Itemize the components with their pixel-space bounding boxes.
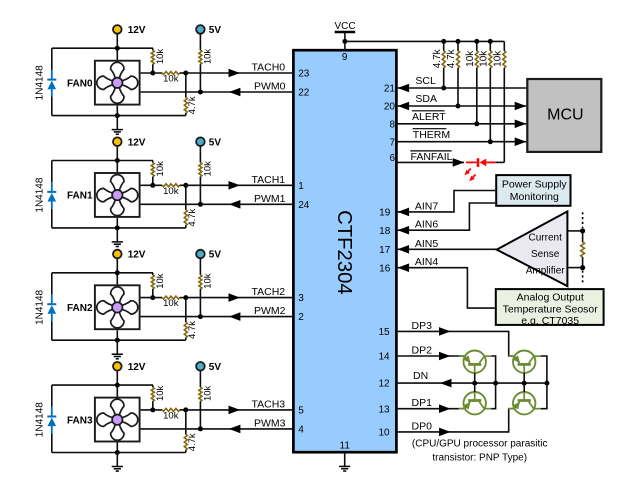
- wire DN line: [396, 382, 547, 384]
- block Analog Output Temperature Sensor: [496, 289, 604, 325]
- svg-text:Analog Output: Analog Output: [517, 292, 584, 304]
- svg-text:4.7k: 4.7k: [187, 321, 198, 339]
- wire Q3 base to DN: [474, 383, 476, 392]
- svg-text:AIN7: AIN7: [415, 200, 439, 212]
- resistor 10k series fan1: [162, 184, 179, 187]
- node VCC rail junction ALERT: [474, 39, 479, 44]
- resistor shunt: [582, 231, 584, 242]
- svg-text:PWM2: PWM2: [254, 305, 286, 317]
- resistor 4.7k pullup SCL: [442, 51, 445, 68]
- wire fan bottom fan3: [116, 443, 118, 453]
- arrow DP2: [439, 352, 451, 361]
- resistor 4.7k pulldown fan3: [185, 410, 187, 435]
- svg-text:DP2: DP2: [412, 345, 433, 357]
- node DN right collectors: [544, 381, 549, 386]
- svg-text:TACH2: TACH2: [252, 286, 286, 298]
- node 12V junction fan0: [115, 46, 120, 51]
- svg-text:1N4148: 1N4148: [34, 402, 45, 437]
- wire 12V rail fan2: [52, 272, 153, 274]
- resistor 10k pullup ALERT: [475, 51, 478, 68]
- resistor 10k series fan0: [162, 72, 179, 75]
- ground fan0: [116, 116, 118, 130]
- svg-text:1N4148: 1N4148: [34, 177, 45, 212]
- wire Q2 collector to DN: [541, 356, 547, 383]
- arrow TACH2: [229, 293, 241, 302]
- arrow AIN6 into IC: [398, 226, 410, 235]
- resistor 4.7k pullup SDA: [457, 51, 460, 68]
- svg-text:PWM3: PWM3: [254, 417, 286, 429]
- transistor Q1 (DP2/DN): [459, 351, 492, 373]
- svg-text:13: 13: [378, 404, 390, 415]
- LED emission arrows: [464, 169, 475, 182]
- resistor 10k pullup FANFAIL: [503, 51, 506, 68]
- svg-text:4.7k: 4.7k: [187, 208, 198, 226]
- svg-text:1: 1: [298, 181, 304, 192]
- resistor 10k pullup 12V fan3: [152, 385, 154, 387]
- supply 5V fan3: [196, 362, 205, 371]
- resistor 10k pullup 12V fan2: [152, 273, 154, 275]
- svg-text:4.7k: 4.7k: [187, 96, 198, 114]
- wire TACH1 line: [186, 184, 294, 186]
- node TACH junction fan2: [183, 295, 188, 300]
- arrow PWM2: [229, 312, 241, 321]
- arrow AIN4 into IC: [398, 263, 410, 272]
- svg-text:Monitoring: Monitoring: [510, 191, 559, 203]
- node 12V junction fan3: [115, 383, 120, 388]
- wire Q1 collector to DN: [491, 356, 495, 383]
- arrow PWM0: [229, 88, 241, 97]
- svg-text:5V: 5V: [209, 25, 222, 36]
- block Power Supply Monitoring: [496, 175, 570, 206]
- node PWM junction fan1: [198, 202, 203, 207]
- svg-text:Amplifier: Amplifier: [526, 265, 566, 276]
- arrow PWM3: [229, 425, 241, 434]
- wire 12V rail fan0: [52, 47, 153, 49]
- wire PWM2 line: [141, 316, 294, 318]
- resistor 10k pullup 12V fan0: [152, 48, 154, 50]
- svg-text:10k: 10k: [493, 50, 504, 67]
- svg-text:TACH1: TACH1: [252, 174, 286, 186]
- wire VCC rail: [345, 40, 504, 42]
- wire AIN7 line: [396, 191, 495, 212]
- svg-text:16: 16: [379, 263, 391, 274]
- svg-text:10: 10: [378, 428, 390, 439]
- wire DP2 line: [396, 355, 464, 357]
- arrow TACH3: [229, 406, 241, 415]
- arrow DP0: [439, 428, 451, 437]
- svg-text:10k: 10k: [465, 50, 476, 67]
- resistor 10k pullup 5V fan3: [199, 370, 201, 387]
- svg-text:10k: 10k: [155, 49, 166, 65]
- wire 12V rail fan1: [52, 160, 153, 162]
- resistor 10k pullup 5V fan2: [199, 258, 201, 275]
- svg-text:18: 18: [379, 226, 391, 237]
- wire PWM3 line: [141, 428, 294, 430]
- wire FANFAIL to pullup: [496, 161, 505, 163]
- wire Q4 collector to DN: [541, 383, 547, 409]
- diode 1N4148 fan1: [47, 182, 56, 209]
- svg-text:TACH3: TACH3: [252, 398, 286, 410]
- node TACH junction fan1: [183, 183, 188, 188]
- wire left rail fan2: [51, 273, 53, 295]
- supply 12V fan3: [113, 362, 122, 371]
- node PWM junction fan0: [198, 90, 203, 95]
- arrow TACH1: [229, 181, 241, 190]
- svg-text:10k: 10k: [163, 186, 179, 197]
- wire ALERT line: [396, 123, 526, 125]
- node PWM junction fan2: [198, 314, 203, 319]
- svg-text:4.7k: 4.7k: [187, 433, 198, 451]
- node ALERT junction: [474, 121, 479, 126]
- svg-text:12V: 12V: [128, 362, 146, 373]
- svg-text:6: 6: [389, 153, 395, 164]
- power VCC: [334, 21, 355, 50]
- svg-text:5: 5: [298, 406, 304, 417]
- wire TACH2 line: [186, 297, 294, 299]
- wire AIN6 line: [396, 203, 495, 230]
- ground fan1: [116, 228, 118, 242]
- svg-text:12V: 12V: [128, 137, 146, 148]
- svg-text:12: 12: [378, 379, 390, 390]
- svg-text:PWM1: PWM1: [254, 193, 286, 205]
- wire 12V drop fan0: [116, 34, 118, 60]
- svg-text:AIN5: AIN5: [415, 238, 439, 250]
- ground fan2: [116, 340, 118, 354]
- svg-text:10k: 10k: [163, 411, 179, 422]
- wire ground rail fan0: [52, 115, 186, 117]
- wire sense- stub: [567, 267, 582, 269]
- fan FAN1: [95, 173, 140, 217]
- arrow SCL into IC: [398, 84, 410, 93]
- wire Q4 base to DN: [523, 383, 525, 392]
- svg-text:24: 24: [298, 200, 310, 211]
- resistor 4.7k pulldown fan2: [185, 298, 187, 323]
- svg-text:12V: 12V: [128, 250, 146, 261]
- arrow AIN7 into IC: [398, 208, 410, 217]
- wire TACH0 line: [186, 72, 294, 74]
- ground IC pin 11: [344, 452, 346, 466]
- svg-text:FANFAIL: FANFAIL: [411, 151, 453, 163]
- wire tach lead fan1: [141, 184, 163, 186]
- MCU block: [527, 79, 601, 152]
- svg-text:20: 20: [384, 102, 396, 113]
- svg-text:23: 23: [298, 69, 310, 80]
- svg-text:Power Supply: Power Supply: [502, 178, 568, 190]
- resistor 10k pullup THERM: [489, 51, 492, 68]
- wire PWM1 line: [141, 203, 294, 205]
- supply 12V fan2: [113, 250, 122, 259]
- arrow TACH0: [229, 69, 241, 78]
- resistor 10k series fan2: [162, 296, 179, 299]
- arrow ALERT into MCU: [515, 120, 527, 129]
- fan FAN3: [95, 398, 140, 442]
- node sense-: [580, 265, 585, 270]
- svg-text:8: 8: [389, 119, 395, 130]
- node DN left collectors: [493, 381, 498, 386]
- svg-text:5V: 5V: [209, 362, 222, 373]
- node 12V junction fan2: [115, 270, 120, 275]
- wire SCL line: [396, 87, 526, 89]
- arrow FANFAIL: [453, 158, 465, 167]
- svg-text:10k: 10k: [203, 161, 214, 177]
- supply 5V fan1: [196, 137, 205, 146]
- svg-text:FAN3: FAN3: [67, 415, 93, 426]
- wire FANFAIL line: [396, 161, 464, 163]
- svg-text:VCC: VCC: [334, 21, 355, 32]
- svg-text:10k: 10k: [203, 49, 214, 65]
- LED fan-fail indicator: [466, 158, 496, 167]
- wire TACH3 line: [186, 409, 294, 411]
- diode 1N4148 fan2: [47, 295, 56, 322]
- svg-text:MCU: MCU: [547, 107, 583, 124]
- svg-text:10k: 10k: [155, 273, 166, 289]
- svg-text:Current: Current: [529, 233, 563, 244]
- supply 12V fan1: [113, 137, 122, 146]
- node tach junction fan3: [150, 407, 155, 412]
- svg-text:5V: 5V: [209, 137, 222, 148]
- wire 12V drop fan1: [116, 146, 118, 172]
- supply 5V fan2: [196, 250, 205, 259]
- wire ground rail fan2: [52, 339, 186, 341]
- supply 5V fan0: [196, 25, 205, 34]
- svg-text:CTF2304: CTF2304: [333, 210, 355, 295]
- node VCC junction: [342, 39, 347, 44]
- node TACH junction fan0: [183, 71, 188, 76]
- node THERM junction: [488, 139, 493, 144]
- node tach junction fan0: [150, 71, 155, 76]
- svg-text:AIN4: AIN4: [415, 256, 439, 268]
- svg-text:transistor: PNP Type): transistor: PNP Type): [432, 453, 527, 464]
- node PWM junction fan3: [198, 426, 203, 431]
- svg-text:4.7k: 4.7k: [432, 48, 443, 68]
- wire 12V drop fan2: [116, 258, 118, 284]
- node VCC rail junction SDA: [456, 39, 461, 44]
- svg-text:10k: 10k: [155, 161, 166, 177]
- svg-text:10k: 10k: [203, 273, 214, 289]
- node SDA junction: [456, 104, 461, 109]
- wire AIN5 line: [396, 248, 496, 250]
- svg-text:Sense: Sense: [531, 249, 560, 260]
- wire Q2 base to DN: [523, 373, 525, 383]
- svg-text:FAN2: FAN2: [67, 303, 93, 314]
- wire left rail fan0: [51, 48, 53, 70]
- arrow SDA into MCU: [515, 102, 527, 111]
- wire THERM line: [396, 141, 526, 143]
- svg-text:22: 22: [298, 88, 310, 99]
- svg-text:ALERT: ALERT: [412, 111, 446, 123]
- resistor 4.7k pulldown fan0: [185, 73, 187, 98]
- op-amp Current Sense Amplifier: [497, 211, 568, 286]
- svg-text:11: 11: [340, 441, 351, 452]
- svg-text:TACH0: TACH0: [252, 62, 286, 74]
- diode 1N4148 fan0: [47, 70, 56, 97]
- resistor 10k pullup 12V fan1: [152, 161, 154, 163]
- node tach junction fan1: [150, 183, 155, 188]
- svg-text:10k: 10k: [163, 74, 179, 85]
- svg-text:9: 9: [342, 52, 348, 63]
- svg-text:4: 4: [298, 425, 304, 436]
- fan FAN0: [95, 61, 140, 105]
- svg-text:SDA: SDA: [415, 93, 437, 105]
- transistor Q3 (DP1/DN): [459, 392, 492, 414]
- arrow SDA into IC: [398, 102, 410, 111]
- svg-text:4.7k: 4.7k: [446, 48, 457, 68]
- arrow DN into IC: [440, 379, 452, 388]
- svg-text:DP1: DP1: [412, 397, 433, 409]
- wire 12V rail fan3: [52, 384, 153, 386]
- wire DP3 line: [396, 331, 513, 356]
- svg-text:DP3: DP3: [412, 320, 433, 332]
- wire tach lead fan0: [141, 72, 163, 74]
- wire ground rail fan1: [52, 227, 186, 229]
- node sense+: [580, 228, 585, 233]
- node 12V junction fan1: [115, 158, 120, 163]
- wire SDA line: [396, 105, 526, 107]
- svg-text:3: 3: [298, 293, 304, 304]
- svg-text:DN: DN: [413, 370, 428, 382]
- wire tach lead fan2: [141, 297, 163, 299]
- wire PWM0 line: [141, 91, 294, 93]
- wire DP0 line: [396, 409, 513, 432]
- wire fan bottom fan0: [116, 106, 118, 116]
- wire sense+ stub: [567, 230, 582, 232]
- svg-text:AIN6: AIN6: [415, 219, 439, 231]
- svg-text:12V: 12V: [128, 25, 146, 36]
- resistor 4.7k pulldown fan1: [185, 185, 187, 210]
- wire ground rail fan3: [52, 452, 186, 454]
- node VCC rail junction THERM: [488, 39, 493, 44]
- arrow DP3: [439, 327, 451, 336]
- wire left rail fan1: [51, 161, 53, 183]
- node VCC rail junction SCL: [441, 39, 446, 44]
- svg-text:7: 7: [389, 137, 395, 148]
- svg-text:DP0: DP0: [412, 420, 433, 432]
- node DN Q2 base: [522, 381, 527, 386]
- svg-text:e.g. CT7035: e.g. CT7035: [521, 315, 579, 327]
- wire tach lead fan3: [141, 409, 163, 411]
- svg-text:1N4148: 1N4148: [34, 65, 45, 100]
- svg-text:THERM: THERM: [413, 129, 450, 141]
- resistor 10k pullup 5V fan1: [199, 146, 201, 163]
- svg-text:21: 21: [384, 84, 396, 95]
- svg-text:(CPU/GPU processor parasitic: (CPU/GPU processor parasitic: [412, 439, 548, 450]
- wire dotted continuation top: [582, 212, 584, 228]
- ground fan3: [116, 453, 118, 467]
- node DN Q1 base: [472, 381, 477, 386]
- arrow AIN5 into IC: [398, 245, 410, 254]
- svg-text:Temperature Seosor: Temperature Seosor: [503, 304, 599, 316]
- node ground junction fan1: [115, 225, 120, 230]
- arrow DP1: [439, 404, 451, 413]
- node TACH junction fan3: [183, 407, 188, 412]
- transistor Q2 (DP3/DN): [508, 351, 541, 373]
- wire 12V drop fan3: [116, 370, 118, 396]
- wire fan bottom fan1: [116, 218, 118, 228]
- arrow THERM into MCU: [515, 137, 527, 146]
- transistor Q4 (DP0/DN): [508, 392, 541, 414]
- wire DP1 line: [396, 408, 464, 410]
- svg-text:10k: 10k: [155, 385, 166, 401]
- svg-text:PWM0: PWM0: [254, 81, 286, 93]
- resistor 10k series fan3: [162, 408, 179, 411]
- wire Q3 collector to DN: [491, 383, 495, 409]
- svg-text:5V: 5V: [209, 250, 222, 261]
- fan FAN2: [95, 285, 140, 329]
- wire dotted continuation bottom: [582, 271, 584, 285]
- svg-text:10k: 10k: [203, 385, 214, 401]
- node SCL junction: [441, 86, 446, 91]
- wire Q1 base to DN: [474, 373, 476, 383]
- node ground junction fan3: [115, 450, 120, 455]
- svg-text:SCL: SCL: [415, 75, 436, 87]
- wire AIN4 line: [396, 268, 494, 308]
- svg-text:1N4148: 1N4148: [34, 289, 45, 324]
- svg-text:FAN0: FAN0: [67, 78, 93, 89]
- node tach junction fan2: [150, 295, 155, 300]
- svg-text:FAN1: FAN1: [67, 191, 93, 202]
- diode 1N4148 fan3: [47, 407, 56, 434]
- node ground junction fan0: [115, 113, 120, 118]
- arrow PWM1: [229, 200, 241, 209]
- resistor 10k pullup 5V fan0: [199, 34, 201, 51]
- wire left rail fan3: [51, 385, 53, 407]
- svg-text:15: 15: [378, 327, 390, 338]
- supply 12V fan0: [113, 25, 122, 34]
- svg-text:2: 2: [298, 312, 304, 323]
- svg-text:19: 19: [379, 208, 391, 219]
- node ground junction fan2: [115, 338, 120, 343]
- svg-text:17: 17: [379, 245, 391, 256]
- svg-text:14: 14: [378, 352, 390, 363]
- IC U1 CTF2304: [293, 50, 396, 452]
- svg-text:10k: 10k: [163, 298, 179, 309]
- svg-text:10k: 10k: [479, 50, 490, 67]
- wire fan bottom fan2: [116, 330, 118, 340]
